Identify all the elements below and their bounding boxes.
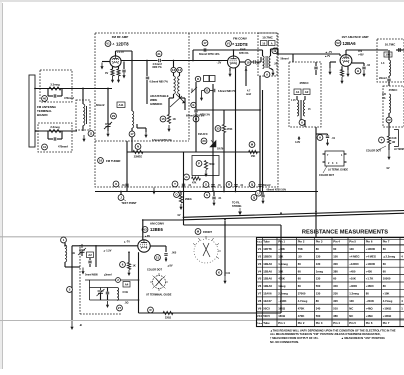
svg-text:100: 100: [382, 93, 387, 96]
svg-text:150: 150: [333, 254, 338, 258]
resistor 220 bottom: [163, 311, 173, 314]
svg-text:+13000: +13000: [366, 262, 376, 266]
svg-text:triode: triode: [240, 47, 246, 50]
svg-text:6.8mmf N80 7%: 6.8mmf N80 7%: [218, 90, 236, 93]
ref 17 node: [129, 131, 135, 137]
svg-text:12BA6: 12BA6: [263, 269, 272, 273]
svg-text:S: S: [206, 193, 208, 197]
svg-text:D: D: [197, 77, 199, 81]
tube V1 triode: [110, 56, 121, 67]
svg-text:470K: 470K: [227, 128, 233, 131]
svg-text:470mmf: 470mmf: [64, 96, 74, 100]
svg-text:U: U: [257, 191, 259, 195]
svg-text:12AX7: 12AX7: [263, 299, 272, 303]
svg-text:GIMMICK: GIMMICK: [150, 102, 162, 106]
svg-text:16: 16: [99, 159, 103, 163]
boxed A4: [123, 282, 130, 288]
ground x225: [224, 276, 226, 283]
resistance table grid: [257, 238, 404, 327]
svg-text:12DT8: 12DT8: [116, 42, 129, 47]
wire 455 box to plate line: [296, 96, 298, 100]
svg-text:10K: 10K: [278, 269, 283, 273]
ref 11 node: [88, 131, 94, 137]
wire B plus line: [95, 191, 318, 193]
horizontal page crease lower: [0, 320, 404, 322]
FM antenna terminal board strip: [29, 75, 35, 147]
AM loop antenna coil: [65, 245, 67, 262]
wire osc grid row: [85, 279, 139, 281]
trimmer mixer left: [191, 87, 197, 93]
svg-text:▲8V: ▲8V: [145, 235, 151, 238]
svg-text:1K: 1K: [133, 265, 136, 268]
svg-text:230: 230: [333, 292, 338, 296]
svg-text:H: H: [357, 69, 359, 73]
svg-text:12BA6: 12BA6: [263, 262, 272, 266]
capacitor 28mmf T2: [388, 76, 390, 78]
svg-text:COLOR DOT: COLOR DOT: [319, 174, 334, 177]
screen bypass ref H: [355, 68, 361, 74]
capacitor in 455KC box: [292, 54, 294, 62]
tube V3 12BE6 designation: [142, 227, 148, 233]
wire V1 plate: [115, 51, 117, 56]
svg-text:4Ω: 4Ω: [72, 252, 75, 255]
svg-text:160Ω: 160Ω: [278, 314, 286, 318]
dashed AM osc enclosure: [79, 247, 81, 314]
wire loop bottom: [64, 262, 66, 267]
wire T1 secondary output: [270, 49, 272, 56]
svg-text:17: 17: [130, 132, 134, 136]
ref 20 AFC diode: [201, 138, 207, 144]
svg-text:N: N: [137, 145, 139, 149]
svg-text:340: 340: [333, 284, 338, 288]
wire afc vertical x213: [212, 84, 214, 152]
AM trimmer cap: [81, 244, 83, 248]
svg-text:41: 41: [43, 145, 47, 149]
svg-text:Pin 4: Pin 4: [333, 321, 340, 325]
svg-text:160Ω: 160Ω: [278, 306, 286, 310]
svg-text:80: 80: [316, 299, 320, 303]
tube V2 triode: [228, 56, 240, 68]
svg-text:.5Ω: .5Ω: [125, 302, 129, 305]
svg-text:Pin 5: Pin 5: [349, 240, 356, 244]
svg-text:V1: V1: [227, 42, 231, 46]
resistor V1 cathode 1: [112, 67, 114, 70]
wire V2 osc feedback vertical: [259, 76, 261, 192]
svg-text:±.01: ±.01: [226, 272, 231, 275]
svg-text:STRING: STRING: [232, 205, 242, 208]
wire V2 plate to T1: [240, 61, 253, 63]
svg-text:Tube: Tube: [263, 240, 270, 244]
svg-text:130: 130: [316, 277, 321, 281]
ref K cap right: [216, 270, 222, 276]
svg-text:9V: 9V: [178, 214, 181, 217]
ground T1: [271, 68, 274, 70]
svg-text:A2: A2: [88, 253, 92, 257]
svg-text:60mmf N750 10%: 60mmf N750 10%: [267, 189, 287, 192]
svg-text:22: 22: [387, 118, 391, 122]
svg-text:+45V: +45V: [358, 53, 364, 56]
svg-text:510: 510: [333, 306, 338, 310]
svg-text:T: T: [381, 138, 383, 142]
svg-text:V9: V9: [258, 306, 262, 310]
svg-text:15: 15: [161, 117, 165, 121]
svg-text:+10000: +10000: [366, 247, 376, 251]
svg-text:455KC: 455KC: [299, 81, 309, 85]
svg-text:Pin 1: Pin 1: [278, 240, 285, 244]
FM antenna board dashed box upper: [40, 70, 72, 102]
ref 17 capacitor 60mmf: [202, 40, 208, 46]
ref 27: [117, 305, 123, 311]
svg-text:10.7MC: 10.7MC: [262, 36, 273, 40]
ref 29 trimmer: [111, 113, 117, 119]
svg-text:.005: .005: [172, 252, 177, 255]
svg-text:380: 380: [333, 269, 338, 273]
svg-text:AM CONV: AM CONV: [150, 222, 164, 226]
svg-text:470K: 470K: [298, 306, 305, 310]
svg-text:V2: V2: [258, 254, 262, 258]
svg-text:11: 11: [89, 132, 92, 136]
svg-text:1ST AM·FM IF AMP: 1ST AM·FM IF AMP: [341, 35, 368, 39]
capacitor 470mmf antenna upper: [47, 89, 49, 97]
svg-text:N750 3%: N750 3%: [200, 114, 211, 117]
solid box small lower: [192, 156, 219, 176]
svg-text:A4: A4: [125, 282, 129, 286]
svg-text:470K: 470K: [278, 277, 285, 281]
svg-text:+10K: +10K: [349, 277, 356, 281]
svg-text:10.7MC: 10.7MC: [385, 43, 396, 47]
wire V1 plate feed vertical: [131, 51, 133, 111]
ground arrow near test point: [153, 188, 155, 194]
ref 31: [156, 51, 162, 57]
svg-text:37000: 37000: [298, 292, 306, 296]
antenna input coil L1: [83, 104, 85, 126]
capacitor C in line x147: [146, 61, 148, 77]
svg-text:~210K: ~210K: [278, 299, 286, 303]
svg-text:12DT8: 12DT8: [235, 42, 248, 47]
wire left drop to ground: [71, 246, 73, 320]
capacitor below A2: [89, 258, 91, 260]
svg-text:10B: 10B: [385, 53, 390, 57]
svg-text:14: 14: [178, 68, 182, 72]
svg-text:V7: V7: [258, 292, 262, 296]
svg-text:FRONT: FRONT: [203, 230, 212, 234]
svg-text:+10K: +10K: [383, 292, 390, 296]
wire drops to bplus: [212, 152, 214, 192]
svg-text:ALL MEASUREMENTS TAKEN IN “FM”: ALL MEASUREMENTS TAKEN IN “FM” POSITION …: [270, 332, 381, 336]
ref R bottom resistor: [148, 307, 154, 313]
svg-text:V3: V3: [143, 228, 147, 232]
svg-text:▴-7V: ▴-7V: [324, 55, 330, 58]
ground V1 cathode 2: [118, 76, 120, 82]
horizontal page crease upper: [0, 236, 404, 238]
wire T1 primary top curl: [259, 49, 263, 51]
svg-text:V6: V6: [258, 284, 262, 288]
ref 33 resistor 470K: [215, 126, 221, 132]
wire antenna top lead: [35, 88, 112, 90]
antenna coil capacitor: [86, 106, 88, 124]
svg-text:40: 40: [43, 97, 47, 101]
wire V4 osc grid down: [138, 252, 140, 313]
svg-text:130: 130: [316, 254, 321, 258]
tuning gang symbol: [194, 239, 218, 263]
ref N resistor 22MEG: [135, 144, 141, 150]
T2 10.7MC winding: [384, 52, 392, 57]
svg-text:P: P: [198, 162, 200, 166]
solid box AM right edge: [280, 225, 282, 313]
ref A node transformer: [299, 120, 305, 126]
transformer dashed box 10.7MC right: [377, 39, 404, 82]
svg-text:+46Ω: +46Ω: [366, 314, 374, 318]
svg-text:700Ω: 700Ω: [209, 163, 215, 166]
svg-text:12BA6: 12BA6: [263, 277, 272, 281]
antenna coil dashed box: [76, 100, 90, 130]
svg-text:N750 3%: N750 3%: [239, 53, 248, 55]
svg-text:▲ MEASURED IN “AM” POSITION.: ▲ MEASURED IN “AM” POSITION.: [341, 336, 385, 340]
svg-text:60: 60: [298, 284, 302, 288]
capacitor V1 cathode bypass: [123, 62, 125, 70]
ground V2 below: [229, 68, 231, 71]
tap wire to ground: [136, 124, 138, 128]
tube V4 12BE6: [138, 240, 150, 252]
svg-text:50C5: 50C5: [263, 314, 270, 318]
svg-text:13: 13: [172, 68, 176, 72]
wire x224 afc resistor: [223, 110, 225, 125]
svg-text:A: A: [271, 41, 273, 45]
wire V4 screen feed vertical: [142, 220, 144, 241]
capacitor 470mmf antenna lower: [47, 131, 49, 139]
svg-text:▲-.7V: ▲-.7V: [325, 51, 332, 54]
ref 18 cap N750: [245, 60, 251, 66]
svg-text:60: 60: [383, 262, 387, 266]
svg-text:12DT8: 12DT8: [263, 247, 272, 251]
FM tuner designation: [98, 158, 104, 164]
svg-text:9V: 9V: [387, 167, 390, 170]
svg-text:1.3meg: 1.3meg: [278, 262, 288, 266]
svg-text:COLOR DOT: COLOR DOT: [147, 269, 162, 272]
ground V1 grid: [101, 63, 103, 69]
ref pin 2 node: [116, 278, 121, 283]
ref cap right of fil: [256, 190, 262, 196]
solid box AM right top edge: [184, 224, 282, 226]
svg-text:+46Ω: +46Ω: [366, 306, 374, 310]
svg-text:~210K: ~210K: [366, 299, 374, 303]
transformer T1 windings: [263, 56, 265, 68]
svg-text:▲-1.5V: ▲-1.5V: [103, 250, 112, 253]
svg-text:Pin 7: Pin 7: [383, 240, 390, 244]
svg-text:17: 17: [203, 41, 207, 45]
svg-text:▲THIS READING WILL VARY DEPEND: ▲THIS READING WILL VARY DEPENDING UPON T…: [270, 328, 396, 332]
svg-text:NC: NC: [349, 306, 353, 310]
ground main AM: [71, 321, 73, 329]
ref 19: [272, 48, 278, 54]
resistor V1 cathode 2: [118, 67, 120, 70]
svg-text:15K: 15K: [251, 155, 256, 158]
svg-text:18: 18: [246, 61, 250, 65]
svg-text:6.8mmf N80 7%: 6.8mmf N80 7%: [150, 81, 169, 84]
junction dots: [82, 88, 84, 90]
svg-text:V1: V1: [258, 247, 262, 251]
FM tuner inner dashed partition: [188, 33, 190, 141]
test point branch: [118, 195, 124, 201]
ref A node: [264, 72, 270, 78]
svg-text:60: 60: [298, 262, 302, 266]
svg-text:U7 TERMINAL GUIDE: U7 TERMINAL GUIDE: [146, 294, 172, 297]
svg-text:3.9K: 3.9K: [392, 137, 397, 140]
svg-text:FM CONV: FM CONV: [233, 37, 247, 41]
ground V1 cathode 1: [112, 76, 114, 82]
capacitor .005 screen bypass: [165, 246, 167, 252]
wire V4 grid to left: [72, 245, 138, 247]
svg-text:+16K: +16K: [278, 247, 285, 251]
solid box AM bottom edge: [139, 312, 282, 314]
svg-text:60: 60: [298, 277, 302, 281]
gimmick wire symbol: [170, 96, 182, 107]
osc transformer refs 13 14: [171, 67, 176, 72]
ref osc cap 5: [67, 287, 73, 293]
svg-text:15K: 15K: [278, 254, 283, 258]
svg-text:Pin 6: Pin 6: [366, 321, 373, 325]
svg-text:+4600: +4600: [349, 284, 357, 288]
wire coupling line upper 60mmf: [193, 49, 259, 51]
wire horizontal y110: [196, 109, 260, 111]
svg-text:12BE6: 12BE6: [150, 227, 163, 232]
ref node x196: [191, 102, 196, 107]
wire left drop x127: [126, 141, 128, 192]
screen cap .02: [352, 62, 364, 64]
svg-text:N80 7%: N80 7%: [153, 65, 163, 69]
svg-text:Pin 7: Pin 7: [383, 321, 390, 325]
svg-text:33: 33: [216, 127, 220, 131]
wire down right: [388, 123, 390, 136]
wire V2 cathode down: [235, 68, 237, 192]
ref 41: [42, 144, 48, 150]
wire osc coil tap: [131, 137, 133, 152]
svg-text:130: 130: [349, 299, 354, 303]
svg-text:50C5: 50C5: [263, 306, 270, 310]
wire V4 plate right: [150, 245, 166, 247]
tube V2 12BA6 designation: [335, 40, 341, 46]
svg-text:455KC: 455KC: [389, 88, 398, 92]
wire V1 grid left: [102, 61, 110, 63]
svg-text:10000: 10000: [383, 277, 391, 281]
svg-text:Pin 5: Pin 5: [349, 321, 356, 325]
resistor 2.2meg antenna lower: [49, 129, 61, 132]
svg-text:S: S: [205, 183, 207, 187]
svg-text:NC: NC: [349, 314, 353, 318]
svg-text:NC. NO CONNECTION.: NC. NO CONNECTION.: [270, 340, 299, 344]
wire parallel shield vertical: [262, 90, 264, 192]
ref M resistor 15K: [249, 142, 255, 148]
osc variable cap: [100, 288, 102, 291]
resistance table text: [257, 240, 395, 326]
boxed A1: [294, 89, 301, 95]
svg-text:+450: +450: [366, 269, 373, 273]
svg-text:500: 500: [316, 284, 321, 288]
wire osc bottom: [90, 299, 139, 301]
wire am rf drop x96: [95, 246, 97, 267]
svg-text:+4600: +4600: [366, 284, 374, 288]
svg-text:L8 TERM: L8 TERM: [394, 149, 404, 151]
ref cap pair mid: [204, 192, 210, 198]
svg-text:Tube: Tube: [257, 323, 263, 325]
wire below 455 box with arrow: [304, 120, 306, 127]
svg-text:60: 60: [383, 247, 387, 251]
svg-text:27: 27: [118, 306, 122, 310]
page top edge shading: [0, 0, 404, 2]
svg-text:V10: V10: [257, 314, 263, 318]
ground antenna coil: [83, 135, 85, 141]
FM antenna board dashed box lower: [38, 123, 72, 152]
svg-text:2MEG: 2MEG: [185, 198, 192, 201]
wire into V2 top: [233, 50, 235, 56]
svg-text:470K: 470K: [298, 314, 305, 318]
svg-text:FM RF AMP: FM RF AMP: [112, 35, 129, 39]
svg-text:1 15: 1 15: [291, 100, 296, 102]
svg-text:60mmf N750 10%: 60mmf N750 10%: [199, 53, 220, 56]
svg-text:380: 380: [333, 314, 338, 318]
svg-text:FM TUNER: FM TUNER: [106, 159, 120, 163]
svg-text:A2: A2: [305, 90, 309, 94]
svg-text:Pin 6: Pin 6: [366, 240, 373, 244]
svg-text:▴5mmf: ▴5mmf: [103, 274, 112, 277]
svg-text:22MEG: 22MEG: [134, 156, 143, 159]
svg-text:60: 60: [333, 277, 337, 281]
svg-text:+1.7K: +1.7K: [366, 277, 374, 281]
svg-text:Tube: Tube: [263, 321, 270, 325]
ref G resistor 47K mid: [184, 174, 190, 180]
svg-text:RESISTANCE MEASUREMENTS: RESISTANCE MEASUREMENTS: [302, 230, 388, 236]
svg-text:340: 340: [316, 306, 321, 310]
ref 40: [42, 96, 48, 102]
svg-text:V1: V1: [106, 42, 110, 46]
boxed A2: [303, 89, 310, 95]
svg-text:FM AFC: FM AFC: [198, 132, 208, 136]
transformer dashed box 455KC left: [289, 62, 321, 127]
wire x318 long vertical: [315, 127, 317, 238]
ref D node: [193, 116, 199, 122]
svg-text:.02: .02: [367, 64, 371, 67]
ground gimmick resistor: [168, 125, 170, 131]
svg-text:+4 MEG: +4 MEG: [349, 254, 359, 258]
svg-text:21: 21: [205, 89, 209, 93]
wire heater feeder from V4: [143, 219, 184, 221]
svg-text:12AV6: 12AV6: [263, 292, 272, 296]
svg-text:60mmf: 60mmf: [263, 185, 271, 187]
svg-text:130: 130: [349, 247, 354, 251]
transformer dashed box 455KC right: [383, 86, 404, 127]
osc transformer windings: [173, 61, 175, 68]
capacitor 4.7 feedback: [245, 66, 247, 86]
osc fixed cap: [107, 288, 109, 292]
svg-text:Pin 2: Pin 2: [298, 321, 305, 325]
svg-text:+100Ω: +100Ω: [383, 306, 392, 310]
svg-text:60mmf: 60mmf: [96, 103, 104, 107]
bypass caps row y185: [113, 181, 119, 187]
svg-text:A1: A1: [296, 90, 300, 94]
svg-text:4.9V: 4.9V: [295, 141, 300, 144]
ref 21 screen: [155, 255, 161, 261]
socket guide U7 circle: [153, 276, 166, 289]
ref W resistor 1K: [160, 116, 166, 122]
svg-text:60: 60: [383, 269, 387, 273]
mixer grid components: [195, 76, 200, 81]
svg-text:+4 MEG: +4 MEG: [366, 254, 376, 258]
tube socket guide U6: [325, 151, 344, 166]
svg-text:Pin 4: Pin 4: [333, 240, 340, 244]
ground right stage: [388, 144, 390, 150]
svg-text:80: 80: [366, 292, 370, 296]
svg-text:-.2V: -.2V: [217, 61, 222, 65]
